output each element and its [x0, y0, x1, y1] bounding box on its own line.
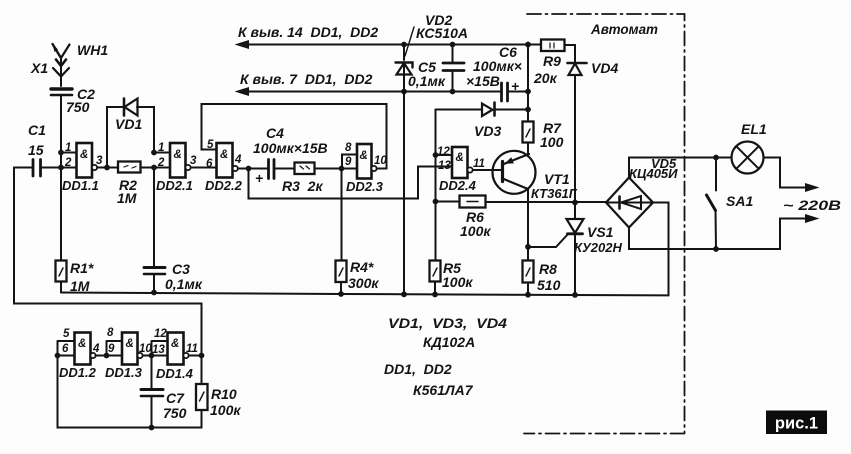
svg-text:К561ЛА7: К561ЛА7 [413, 382, 474, 398]
wire R6 right to thyristor rail [486, 201, 607, 203]
svg-text:DD2.1: DD2.1 [156, 178, 193, 193]
thyristor VS1 [567, 219, 584, 234]
svg-text:C1: C1 [28, 122, 46, 138]
gate DD2.1 [170, 143, 191, 178]
resistor R1 [56, 261, 67, 293]
svg-text:DD1.1: DD1.1 [62, 178, 99, 193]
svg-text:R8: R8 [539, 261, 557, 277]
resistor R5 [430, 261, 441, 282]
svg-text:R3 2к: R3 2к [282, 178, 323, 194]
gate DD1.1 [77, 143, 98, 178]
wire DD1.2 out to DD1.3 in [96, 341, 123, 356]
svg-text:5: 5 [63, 328, 70, 340]
svg-text:13: 13 [438, 160, 451, 172]
wire C4 to R3 [275, 168, 295, 170]
arrow to pin 7 [235, 87, 250, 96]
wire VS1 gate [528, 234, 568, 247]
svg-text:КТ361Г: КТ361Г [531, 186, 578, 201]
antenna WH1 [53, 44, 70, 63]
capacitor C6 [502, 83, 508, 101]
svg-text:0,1мк: 0,1мк [408, 73, 446, 89]
wire DD2.4 output to VT1 base [473, 169, 503, 171]
svg-text:100к: 100к [442, 274, 473, 290]
wire bridge east to ground rail corner [653, 203, 669, 296]
resistor R3 [295, 163, 315, 175]
svg-text:VT1: VT1 [544, 171, 570, 187]
svg-text:5: 5 [207, 139, 214, 151]
svg-text:13: 13 [152, 344, 165, 356]
svg-text:DD1.2: DD1.2 [59, 365, 97, 380]
wire VS1 anode [574, 203, 576, 220]
wire DD2.2 output to C4 [238, 168, 269, 170]
wire C3 branch [153, 168, 155, 267]
svg-text:&: & [78, 338, 86, 350]
svg-text:VD1: VD1 [115, 116, 142, 132]
svg-text:10: 10 [374, 155, 387, 167]
svg-text:100мк×15В: 100мк×15В [253, 140, 328, 156]
svg-text:×15В: ×15В [466, 73, 500, 89]
wire VD1 branch loop [107, 107, 154, 168]
svg-text:SA1: SA1 [726, 193, 753, 209]
svg-text:&: & [126, 338, 134, 350]
svg-text:C7: C7 [166, 390, 185, 406]
bridge rectifier VD5 [606, 178, 653, 228]
svg-text:DD1.4: DD1.4 [156, 366, 194, 381]
svg-text:+: + [255, 170, 263, 186]
svg-text:12: 12 [437, 146, 450, 158]
switch SA1 [707, 158, 717, 250]
svg-text:DD2.3: DD2.3 [346, 179, 384, 194]
arrow 220V lower [805, 214, 820, 223]
resistor R2 [118, 162, 141, 173]
svg-text:510: 510 [537, 277, 561, 293]
pointer line VD2 label [405, 27, 414, 56]
wire lamp right to 220V upper arrow [764, 158, 807, 188]
arrow to pin 14 [235, 40, 250, 49]
gate DD2.3 [357, 144, 377, 179]
wire C3 to ground rail [153, 275, 155, 293]
wire DD2.2 output feeder to DD2.4 pin13 [249, 167, 453, 199]
svg-text:EL1: EL1 [741, 121, 767, 137]
svg-text:КУ202Н: КУ202Н [574, 240, 622, 255]
wire DD1.1 pin1 stub [61, 152, 77, 154]
capacitor C2 [51, 89, 72, 95]
svg-text:1: 1 [158, 142, 164, 154]
svg-text:12: 12 [154, 328, 167, 340]
diode VD4 [568, 63, 587, 75]
wire DD1.2 input stubs [58, 341, 75, 356]
wire C5 branch [452, 45, 454, 92]
wire DD2.3 pin8 stub [342, 155, 357, 169]
svg-text:КД102А: КД102А [423, 334, 475, 350]
wire pin12 vertical down to R5 [434, 110, 437, 295]
resistor R4 [336, 261, 347, 283]
wire 220V lower arrow to AC rail [629, 219, 806, 250]
svg-text:20к: 20к [533, 70, 558, 86]
svg-text:8: 8 [345, 142, 352, 154]
transistor VT1 [493, 143, 536, 194]
wire VT1 collector down to R8 [527, 189, 529, 261]
svg-text:WH1: WH1 [77, 42, 108, 58]
svg-text:100мк×: 100мк× [473, 58, 522, 74]
connector X1 [53, 60, 69, 77]
svg-text:3: 3 [190, 155, 197, 167]
diode VD1 [124, 99, 138, 116]
svg-text:VD3: VD3 [474, 123, 501, 139]
svg-text:750: 750 [66, 99, 90, 115]
svg-text:&: & [360, 150, 368, 162]
svg-text:2: 2 [64, 157, 72, 169]
svg-text:C4: C4 [266, 125, 284, 141]
wire left loop from C1 to oscillator [14, 168, 202, 356]
svg-text:6: 6 [206, 158, 213, 170]
svg-text:C3: C3 [172, 261, 190, 277]
diode VD3 [482, 103, 495, 117]
wire VD3 branch from pin12 node [436, 109, 529, 111]
wire C6 right to x528 node [508, 91, 528, 93]
gate DD2.2 [217, 143, 238, 178]
wire C1 to DD1.1 input node [42, 167, 77, 169]
svg-text:R4*: R4* [350, 259, 374, 275]
svg-text:Автомат: Автомат [590, 21, 658, 37]
svg-text:15: 15 [28, 142, 44, 158]
wire R3 to DD2.3 inputs [315, 168, 358, 170]
gate DD1.4 [168, 333, 189, 365]
wire x528 vertical top rail to R7 [527, 45, 529, 122]
svg-text:9: 9 [345, 156, 352, 168]
svg-text:8: 8 [107, 327, 114, 339]
capacitor C7 [141, 390, 163, 397]
capacitor C5 [443, 63, 464, 71]
wire DD1.3 out to DD1.4 in [143, 341, 168, 356]
capacitor C1 [33, 160, 41, 177]
svg-text:2: 2 [157, 157, 165, 169]
svg-text:R9: R9 [543, 53, 561, 69]
wire C7 branch [151, 356, 153, 390]
gate DD1.3 [122, 333, 143, 365]
capacitor C3 [144, 268, 165, 275]
resistor R9 [541, 40, 565, 52]
ground rail [61, 293, 669, 296]
gate DD1.2 [75, 333, 96, 365]
wire R9 right to VD4 [565, 45, 576, 203]
wire feedback rectangle DD2.3 out to DD2.2 pin5 [202, 104, 387, 169]
svg-text:9: 9 [108, 343, 115, 355]
svg-text:1М: 1М [117, 190, 137, 206]
svg-text:VD1, VD3, VD4: VD1, VD3, VD4 [388, 315, 507, 331]
svg-text:10: 10 [139, 343, 152, 355]
svg-text:X1: X1 [30, 60, 48, 76]
capacitor C4 [269, 160, 275, 179]
lamp EL1 [732, 142, 764, 174]
svg-text:3: 3 [96, 155, 103, 167]
zener diode VD2 [396, 63, 413, 76]
wire C1 left lead [14, 167, 32, 169]
wire DD1.4 out to R10 node [189, 356, 202, 385]
figure label box ris.1 [766, 411, 827, 435]
wire top rail K vyv.14 [246, 44, 541, 46]
svg-text:4: 4 [92, 343, 100, 355]
svg-text:рис.1: рис.1 [775, 415, 818, 433]
svg-text:11: 11 [473, 158, 485, 170]
svg-text:DD1, DD2: DD1, DD2 [384, 361, 452, 377]
wire DD2.4 pin12 stub [436, 154, 453, 156]
svg-text:0,1мк: 0,1мк [165, 276, 203, 292]
svg-text:К выв. 7 DD1, DD2: К выв. 7 DD1, DD2 [240, 71, 373, 87]
wire bridge north to lamp rail [629, 158, 732, 178]
resistor R6 [460, 196, 486, 208]
svg-text:4: 4 [234, 154, 242, 166]
resistor R7 [523, 122, 534, 143]
svg-text:&: & [456, 152, 464, 164]
svg-text:&: & [220, 149, 228, 161]
wire VD2 vertical from top rail to ground rail [403, 45, 405, 295]
svg-text:1М: 1М [70, 278, 90, 294]
svg-text:6: 6 [62, 343, 69, 355]
wire C7 to bottom loop [151, 397, 153, 428]
svg-text:100к: 100к [210, 402, 241, 418]
svg-text:К выв. 14 DD1, DD2: К выв. 14 DD1, DD2 [238, 24, 378, 40]
svg-text:11: 11 [186, 343, 198, 355]
svg-text:DD1.3: DD1.3 [105, 365, 143, 380]
wire R4 branch [340, 169, 343, 295]
svg-text:100к: 100к [460, 223, 491, 239]
wire R2 to DD2.1 input [141, 167, 171, 169]
svg-text:300к: 300к [348, 275, 379, 291]
arrow 220V upper [805, 183, 820, 192]
oscillator bottom loop wire [58, 356, 202, 428]
svg-text:DD2.4: DD2.4 [439, 178, 477, 193]
svg-text:+: + [511, 78, 519, 94]
resistor R8 [523, 261, 534, 283]
wire DD2.1 output to DD2.2 pin6 [191, 167, 217, 169]
svg-text:VS1: VS1 [587, 224, 614, 240]
wire DD1.1 output to node A [97, 167, 119, 169]
svg-text:~ 220В: ~ 220В [783, 197, 841, 213]
dash-dot border Avtomat box [524, 14, 685, 434]
svg-text:&: & [174, 149, 182, 161]
svg-text:100: 100 [540, 134, 564, 150]
wire R8 to ground rail [527, 283, 529, 295]
resistor R10 [196, 384, 208, 410]
svg-text:&: & [171, 338, 179, 350]
svg-text:КЦ405И: КЦ405И [629, 166, 678, 181]
svg-text:R10: R10 [211, 386, 237, 402]
svg-text:&: & [80, 149, 88, 161]
gate DD2.4 [452, 147, 473, 178]
svg-text:R1*: R1* [70, 260, 94, 276]
svg-text:VD4: VD4 [591, 60, 618, 76]
wire C2 down to DD1.1 inputs and R1 [60, 96, 62, 260]
wire R6 left lead [436, 201, 460, 203]
svg-text:1: 1 [65, 142, 71, 154]
wire antenna to C2 [60, 66, 62, 86]
wire DD2.1 pin1 stub [154, 152, 170, 154]
wire rail K vyv.7 [246, 91, 501, 93]
svg-text:750: 750 [163, 405, 187, 421]
svg-text:DD2.2: DD2.2 [205, 178, 243, 193]
svg-text:КС510А: КС510А [416, 25, 468, 41]
wire VS1 cathode to ground rail [574, 234, 576, 295]
